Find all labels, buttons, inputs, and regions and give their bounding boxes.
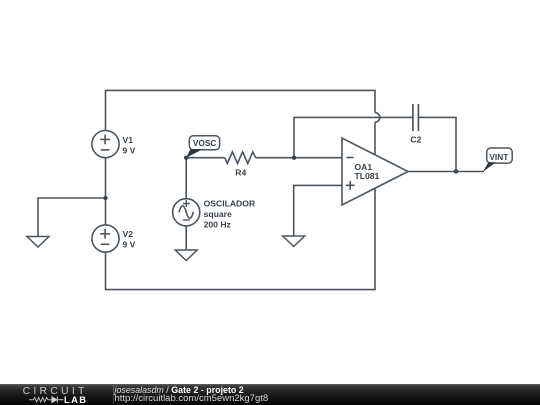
wire: V2 bottom, bottom rail, V- supply pin: [106, 188, 376, 290]
wire: mid junction to left ground: [38, 198, 106, 237]
op-amp OA1 triangle body: [342, 138, 408, 205]
V2 plus symbol: [100, 229, 110, 239]
junction: V1-V2 midpoint: [103, 196, 107, 200]
wire: mid junction to V2 top: [105, 198, 107, 225]
resistor R4 zigzag: [225, 152, 256, 164]
ground: under non-inverting input: [283, 236, 305, 247]
footer line 1: author / title: [115, 386, 244, 395]
svg-text:9 V: 9 V: [123, 145, 136, 155]
node flag VOSC pointer: [186, 149, 202, 158]
node flag VINT box: [487, 148, 513, 163]
wire: hop over feedback wire: [375, 113, 380, 123]
op-amp minus input symbol: [346, 157, 353, 159]
wire: C2 right plate down to output node: [419, 117, 456, 171]
svg-text:VOSC: VOSC: [193, 138, 217, 148]
oscillator sine wave: [179, 206, 193, 218]
footer line 2: url: [115, 394, 269, 404]
op-amp plus input symbol: [346, 181, 355, 190]
svg-text:OSCILADOR: OSCILADOR: [204, 198, 256, 208]
wire: VOSC node to R4 left lead: [186, 157, 225, 159]
svg-text:C2: C2: [410, 135, 421, 145]
V1 minus symbol: [101, 149, 110, 151]
svg-text:V2: V2: [123, 229, 134, 239]
wire: VOSC node down to oscillator top: [185, 158, 187, 199]
V2 minus symbol: [101, 243, 110, 245]
footer logo CIRCUIT: [23, 386, 88, 397]
footer logo LAB: [64, 395, 87, 404]
wire: top V+ rail from V1 top to op-amp supply column: [106, 90, 376, 130]
footer bar: [0, 384, 540, 405]
junction: VOSC node: [184, 156, 188, 160]
wire: feedback from inverting node up and across to C2 left plate: [294, 117, 412, 157]
V1 plus symbol: [100, 135, 110, 145]
oscillator source circle: [173, 199, 200, 226]
junction: output node: [454, 169, 458, 173]
wire: op-amp output to VINT flag: [408, 171, 484, 173]
oscillator plus symbol: [183, 200, 190, 207]
svg-text:9 V: 9 V: [123, 239, 136, 249]
node flag VOSC box: [189, 136, 219, 150]
ground: under oscillator: [175, 250, 197, 261]
capacitor C2 plates: [413, 104, 419, 131]
wire: V+ supply pin into op-amp: [374, 122, 376, 156]
wire: R4 right lead to op-amp inverting input: [256, 157, 342, 159]
svg-text:R4: R4: [235, 168, 246, 178]
oscillator minus symbol: [183, 219, 190, 221]
svg-text:TL081: TL081: [355, 171, 380, 181]
node flag VINT pointer: [483, 162, 496, 172]
wire: oscillator bottom to ground: [185, 226, 187, 250]
junction: inverting input node: [292, 156, 296, 160]
ground: left (between V1 and V2): [27, 237, 49, 248]
svg-text:square: square: [204, 209, 232, 219]
svg-text:200 Hz: 200 Hz: [204, 219, 231, 229]
voltage source V1 circle: [92, 131, 119, 158]
footer divider: [113, 385, 114, 404]
wire: V1 bottom to mid junction: [105, 157, 107, 198]
voltage source V2 circle: [92, 225, 119, 252]
svg-text:V1: V1: [123, 135, 134, 145]
wire: non-inverting input to ground: [294, 185, 342, 236]
svg-text:VINT: VINT: [489, 152, 508, 162]
